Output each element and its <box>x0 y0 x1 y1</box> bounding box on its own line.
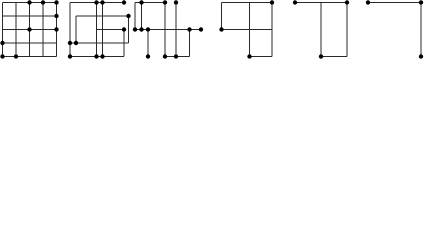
node D6 dot (421,56.5) <box>419 54 423 58</box>
wire D1 horizontal line y=2.5 <box>3 2 57 4</box>
wire D1 vertical line x=2.5 <box>2 3 4 57</box>
node D4 dot (221.5,29.5) <box>219 27 223 31</box>
wire D1 horizontal line y=43 <box>3 42 57 44</box>
wire D3 vertical line x=135 <box>134 3 136 30</box>
wire D2 horizontal line y=16 <box>76 15 129 17</box>
wire D6 vertical line x=421 <box>420 3 422 57</box>
wire D3 vertical line x=165 <box>164 3 166 57</box>
node D2 dot (102.5,2.5) <box>100 0 104 4</box>
node D2 dot (96.5,2.5) <box>94 0 98 4</box>
wire D2 vertical line x=128.5 <box>128 16 130 43</box>
wire D1 vertical line x=43 <box>42 3 44 57</box>
node D1 dot (2.5,43) <box>0 41 4 45</box>
node D3 dot (141.5,29.5) <box>139 27 143 31</box>
node D5 dot (321,56.5) <box>319 54 323 58</box>
wire D2 vertical line x=96.5 <box>96 3 98 57</box>
node D3 dot (135,29.5) <box>133 27 137 31</box>
wire D5 horizontal line y=56.5 <box>321 56 347 58</box>
node D3 dot (148,56.5) <box>146 54 150 58</box>
wire D6 horizontal line y=2.5 <box>368 2 421 4</box>
diagram D5: T lattice with three marked vertices <box>293 0 349 58</box>
node D1 dot (43,2.5) <box>41 0 45 4</box>
node D3 dot (165,56.5) <box>163 54 167 58</box>
node D2 dot (96.5,56.5) <box>94 54 98 58</box>
node D2 dot (102.5,56.5) <box>100 54 104 58</box>
node D2 dot (128.5,16) <box>126 14 130 18</box>
node D3 dot (165,2.5) <box>163 0 167 4</box>
node D1 dot (29.5,2.5) <box>27 0 31 4</box>
wire D3 vertical line x=141.5 <box>141 3 143 30</box>
node D3 dot (176,2.5) <box>174 0 178 4</box>
diagram D1: 4x4 lattice grid with marked vertices <box>0 0 58 58</box>
wire D1 vertical line x=56.5 <box>56 3 58 57</box>
wire D3 horizontal line y=2.5 <box>135 2 165 4</box>
wire D4 horizontal line y=56.5 <box>250 56 273 58</box>
wire D4 horizontal line y=2.5 <box>222 2 273 4</box>
node D1 dot (2.5,56.5) <box>0 54 4 58</box>
wire D2 vertical line x=124 <box>123 30 125 57</box>
wire D1 horizontal line y=29.5 <box>3 29 57 31</box>
wire D2 horizontal line y=56.5 <box>70 56 124 58</box>
node D2 dot (70,56.5) <box>68 54 72 58</box>
wire D3 vertical line x=176 <box>175 3 177 57</box>
wire D2 horizontal line y=43 <box>70 42 129 44</box>
node D2 dot (70,43) <box>68 41 72 45</box>
diagram D4: cross lattice with three marked vertices <box>219 0 274 58</box>
wire D3 vertical line x=189.5 <box>189 30 191 57</box>
node D3 dot (141.5,2.5) <box>139 0 143 4</box>
node D5 dot (347,2.5) <box>345 0 349 4</box>
node D4 dot (249.5,56.5) <box>247 54 251 58</box>
node D1 dot (16,56.5) <box>14 54 18 58</box>
wire D1 vertical line x=16 <box>15 3 17 57</box>
diagram D3: contracted lattice with marked vertices <box>133 0 203 58</box>
wire D4 vertical line x=249.5 <box>249 3 251 57</box>
wire D5 horizontal line y=2.5 <box>295 2 347 4</box>
wire D1 horizontal line y=56.5 <box>3 56 57 58</box>
node D5 dot (295,2.5) <box>293 0 297 4</box>
node D6 dot (421,2.5) <box>419 0 423 4</box>
wire D2 vertical line x=102.5 <box>102 3 104 57</box>
node D3 dot (201,29.5) <box>199 27 203 31</box>
node D3 dot (148,29.5) <box>146 27 150 31</box>
node D2 dot (124,29.5) <box>122 27 126 31</box>
wire D3 horizontal line y=29.5 <box>135 29 201 31</box>
wire D2 vertical line x=70 <box>69 3 71 57</box>
wire D5 vertical line x=347 <box>346 3 348 57</box>
wire D2 vertical line x=76 <box>75 16 77 43</box>
node D2 dot (76,43) <box>74 41 78 45</box>
wire D4 vertical line x=221.5 <box>221 3 223 30</box>
diagram D6: corner lattice with three marked vertices <box>366 0 423 58</box>
wire D5 vertical line x=321 <box>320 3 322 57</box>
node D2 dot (124,2.5) <box>122 0 126 4</box>
node D4 dot (272,2.5) <box>270 0 274 4</box>
wire D1 horizontal line y=16 <box>3 15 57 17</box>
wire D2 horizontal line y=29.5 <box>97 29 125 31</box>
node D1 dot (56.5,29.5) <box>54 27 58 31</box>
wire D4 vertical line x=272 <box>271 3 273 57</box>
node D6 dot (368,2.5) <box>366 0 370 4</box>
wire D3 horizontal line y=56.5 <box>165 56 190 58</box>
wire D4 horizontal line y=29.5 <box>222 29 273 31</box>
node D1 dot (56.5,2.5) <box>54 0 58 4</box>
node D3 dot (189.5,29.5) <box>187 27 191 31</box>
node D1 dot (56.5,16) <box>54 14 58 18</box>
wire D3 vertical line x=148 <box>147 30 149 57</box>
node D1 dot (29.5,29.5) <box>27 27 31 31</box>
wire D1 vertical line x=29.5 <box>29 3 31 57</box>
wire D2 horizontal line y=2.5 <box>70 2 124 4</box>
diagram D2: split-line lattice with marked vertices <box>68 0 131 58</box>
node D3 dot (176,56.5) <box>174 54 178 58</box>
